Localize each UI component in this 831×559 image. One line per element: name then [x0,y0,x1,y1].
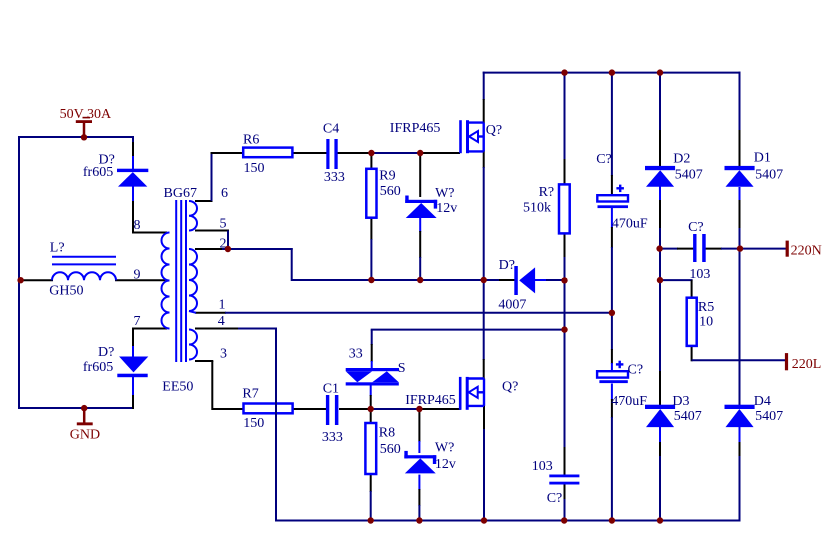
inductor L? GH50 [52,257,116,281]
label C? cap470b [628,363,644,378]
junction dot GND tap [81,405,87,411]
wire cap470b top lead [611,313,613,372]
wire diac top vertical [371,330,373,369]
label 5407 D3 [674,409,702,424]
svg-text:6: 6 [221,186,228,201]
pin number 4 [218,314,225,329]
label 470uF bottom [611,394,647,409]
wire bottom-left GND rail [18,407,134,409]
wire midpoint vertical [483,280,485,379]
junction dot bottom rail cap470b [609,517,615,523]
wire R9 bottom lead [370,217,372,282]
pin number 2 [220,237,227,252]
label R? 510k [539,185,555,200]
label D2 [673,152,690,167]
svg-text:2: 2 [220,237,227,252]
wire zener2 bottom lead [418,475,420,522]
wire zener1 top lead [419,153,421,197]
wire pin4 horizontal [238,328,277,330]
wire inductor right to pin9 [115,279,167,281]
svg-text:C?: C? [547,491,563,506]
label Q? bottom [502,380,518,395]
label 510k [523,201,551,216]
svg-text:5407: 5407 [755,168,783,183]
pin number 6 [221,186,228,201]
svg-text:C?: C? [628,363,644,378]
junction dot left rail / inductor [17,277,23,283]
junction dot bottom rail zener2 [416,517,422,523]
svg-text:R7: R7 [242,387,258,402]
svg-text:103: 103 [689,267,710,282]
svg-text:fr605: fr605 [83,165,113,180]
wire Q1 source vertical [483,150,485,281]
label 150 R6 [244,161,265,176]
wire Q2 source vertical [483,405,485,522]
label 5407 D2 [675,168,703,183]
pin number 7 [134,314,141,329]
svg-text:9: 9 [134,267,141,282]
label 470uF top [612,217,648,232]
wire bottom gate line R7-C1 [292,408,327,410]
wire pin3 vertical [211,361,213,410]
svg-text:510k: 510k [523,201,551,216]
svg-text:W?: W? [435,441,454,456]
terminal 220L [785,353,788,370]
svg-text:Q?: Q? [502,380,518,395]
junction dot top rail D2 [657,69,663,75]
svg-text:5407: 5407 [675,168,703,183]
svg-text:50V 30A: 50V 30A [60,107,112,122]
wire D1-D4 vertical [739,249,741,406]
label C1 [323,382,339,397]
wire top diode branch upper [132,137,134,233]
wire R8 top lead [370,409,372,424]
svg-text:8: 8 [134,218,141,233]
wire cap470a top lead [611,73,613,196]
svg-text:C?: C? [688,220,704,235]
svg-text:D4: D4 [754,394,771,409]
label 103 bottom [532,459,553,474]
pin number 3 [220,347,227,362]
svg-text:7: 7 [134,314,141,329]
junction dot 220N D1 line [737,245,743,251]
wire left rail [18,136,20,409]
junction dot bottom gate diac [368,406,374,412]
svg-text:4: 4 [218,314,225,329]
capacitor C? 103 bottom [549,475,579,485]
label W? bottom [435,441,454,456]
zener diode W? 12v top [405,196,437,219]
junction dot mid line midpoint [481,277,487,283]
wire pin4 vertical crossing R7 [275,402,277,415]
wire cap103b to bottom rail [564,484,566,522]
transformer primary winding pins 8-9-7 [162,233,170,329]
wire 4007 left lead [484,279,515,281]
resistor R7 [244,404,293,414]
svg-text:BG67: BG67 [164,186,197,201]
svg-text:5: 5 [220,216,227,231]
svg-text:R?: R? [539,185,555,200]
wire D2 bottom lead [659,187,661,250]
svg-text:R6: R6 [243,132,259,147]
wire zener1 bottom lead [419,218,421,282]
svg-text:R8: R8 [379,426,395,441]
svg-text:S: S [398,361,406,376]
junction dot top rail cap470a [609,69,615,75]
wire Q1 drain vertical [483,72,485,123]
svg-text:IFRP465: IFRP465 [405,393,456,408]
wire step down to mid line [291,248,293,281]
svg-text:4007: 4007 [498,297,526,312]
wire mid line right part [535,279,566,281]
wire mid line left part [292,279,515,281]
junction dot top rail R510k [561,69,567,75]
svg-text:1: 1 [219,297,226,312]
wire R510k top lead [564,73,566,185]
label D? top-left [99,153,115,168]
wire 220N left segment [660,248,694,250]
svg-text:C4: C4 [323,122,339,137]
svg-text:EE50: EE50 [162,379,193,394]
wire R5 bottom lead [691,345,693,361]
label GND [70,428,100,443]
junction dot diac line R510k [561,326,567,332]
label R9 [379,169,395,184]
wire inductor left [18,279,53,281]
wire R510k to cap103b [564,330,566,475]
svg-text:470uF: 470uF [612,217,648,232]
label C? cap103 bottom [547,491,563,506]
label 560 R9 [380,184,401,199]
wire bottom gate line R7 segment [212,408,244,410]
svg-text:5407: 5407 [755,409,783,424]
label 50V 30A [60,107,112,122]
svg-text:W?: W? [435,186,454,201]
label 12v top [436,201,457,216]
svg-text:12v: 12v [436,201,457,216]
svg-text:470uF: 470uF [611,394,647,409]
n-channel MOSFET Q1 IFRP465 [461,120,484,153]
svg-text:D1: D1 [754,151,771,166]
diode D3 [645,405,675,427]
wire diac bottom lead [370,385,372,410]
label 10 R5 [699,315,713,330]
junction dot mid line zener [417,277,423,283]
svg-text:220N: 220N [791,244,822,259]
junction dot top gate zener [417,150,423,156]
svg-text:220L: 220L [792,357,822,372]
transformer core BG67/EE50 [176,200,186,362]
junction dot R5 tap [657,277,663,283]
label 12v bottom [435,457,456,472]
transformer secondary winding pins 6-5 [189,201,197,231]
resistor R? 510k [559,184,570,233]
wire D3 bottom lead [659,427,661,522]
label 220N [791,244,822,259]
capacitor C? 470uF bottom [597,361,628,383]
junction dot pins 2-5 [225,246,231,252]
wire pin2 to step [222,248,293,250]
label 5407 D4 [755,409,783,424]
label fr605 top-left [83,165,113,180]
wire cap470a bottom lead [611,208,613,314]
diode D4 [725,405,755,427]
wire D2 top lead [659,72,661,167]
junction dot bottom rail R8 [368,517,374,523]
wire R510k mid lead [564,233,566,330]
label R7 [242,387,258,402]
svg-text:5407: 5407 [674,409,702,424]
resistor R8 [365,423,376,474]
capacitor C4 [326,139,337,169]
svg-text:C?: C? [596,152,612,167]
terminal 220N [786,241,789,257]
svg-text:C1: C1 [323,382,339,397]
diac 33 S [346,368,399,386]
label W? top [435,186,454,201]
label D? 4007 [499,258,515,273]
diode D? 4007 [514,266,535,295]
wire pin5 to pin2 vertical [227,231,229,250]
wire pin3 stub [195,360,213,362]
svg-text:560: 560 [380,442,401,457]
label R8 [379,426,395,441]
wire top gate line to Q1 gate [420,152,460,154]
label C? cap470a [596,152,612,167]
wire pin2 stub [195,248,224,250]
svg-text:103: 103 [532,459,553,474]
svg-text:L?: L? [50,240,65,255]
svg-text:D3: D3 [672,394,689,409]
label D3 [672,394,689,409]
wire top gate line R6 segment [211,152,245,154]
wire bottom gate line to Q2 gate [419,408,460,410]
wire D4 bottom lead [739,427,741,522]
junction dot top gate R9 [368,150,374,156]
junction dot bottom rail Q2 source [481,517,487,523]
wire zener2 top lead [418,409,420,453]
wire pin8 horizontal [132,232,167,234]
svg-text:D2: D2 [673,152,690,167]
pin number 9 [134,267,141,282]
label 333 C4 [324,170,345,185]
label 5407 D1 [755,168,783,183]
junction dot mid line R510k [561,277,567,283]
wire top gate line C4-junctions [337,152,421,154]
label D1 [754,151,771,166]
svg-text:GND: GND [70,428,100,443]
svg-text:560: 560 [380,184,401,199]
label EE50 [162,379,193,394]
resistor R9 [366,169,376,218]
power terminal 50V 30A [76,118,92,138]
capacitor C1 [326,395,339,425]
transformer secondary winding pins 2-1 [189,249,197,311]
svg-text:150: 150 [243,416,264,431]
wire diac line horizontal [371,329,566,331]
label Q? top [486,123,502,138]
svg-text:D?: D? [499,258,515,273]
junction dot mid line R9 [368,277,374,283]
pin number 5 [220,216,227,231]
wire pin5 stub [195,230,229,232]
svg-text:333: 333 [324,170,345,185]
wire bottom rail [275,520,741,522]
wire bottom diode branch [132,328,134,409]
svg-text:GH50: GH50 [49,284,83,299]
zener diode W? 12v bottom [404,451,436,474]
label IFRP465 top [390,121,441,136]
label C4 [323,122,339,137]
diode D? fr605 bottom [117,357,148,378]
svg-text:10: 10 [699,315,713,330]
svg-text:150: 150 [244,161,265,176]
label IFRP465 bottom [405,393,456,408]
label 333 C1 [322,430,343,445]
junction dot bottom rail R510k [561,517,567,523]
wire R9 top lead [370,153,372,170]
svg-text:IFRP465: IFRP465 [390,121,441,136]
wire pin1 to cap midpoint [195,312,613,314]
wire R5 top horizontal [660,279,693,281]
wire top rail [483,72,741,74]
label BG67 [164,186,197,201]
label 560 R8 [380,442,401,457]
transformer secondary winding pins 4-3 [189,330,197,360]
svg-text:33: 33 [349,347,363,362]
svg-text:3: 3 [220,347,227,362]
label S diac [398,361,406,376]
pin number 1 [219,297,226,312]
label D? bottom-left [98,345,114,360]
wire 220N right segment [706,248,787,250]
pin number 8 [134,218,141,233]
junction dot pin1 cap midpoint [609,310,615,316]
resistor R6 [243,148,292,158]
wire R5 top lead [691,280,693,298]
svg-text:Q?: Q? [486,123,502,138]
capacitor C? 470uF top [597,185,628,209]
label GH50 [49,284,83,299]
label 220L [792,357,822,372]
label 33 diac [349,347,363,362]
capacitor C? 103 top [693,234,706,262]
n-channel MOSFET Q2 IFRP465 [460,377,484,410]
wire pin4 vertical to bottom rail [275,328,277,522]
label fr605 bottom-left [83,360,113,375]
junction dot bottom gate zener [416,406,422,412]
label R6 [243,132,259,147]
diode D? fr605 top [117,169,148,187]
svg-text:333: 333 [322,430,343,445]
wire D3 top lead [659,280,661,408]
label 4007 [498,297,526,312]
wire D1 bottom lead [739,187,741,250]
wire cap470b bottom lead [611,384,613,522]
wire pin4 stub [195,328,240,330]
diode D2 [645,166,675,187]
svg-text:R9: R9 [379,169,395,184]
junction dot bottom rail D3 [657,517,663,523]
junction dot 220N D2 line [656,245,662,251]
wire bottom gate line C1-junctions [339,408,420,410]
resistor R5 [687,298,697,346]
wire D2-D3 vertical [659,249,661,281]
wire pin6 stub and vertical [195,152,213,201]
wire R8 bottom lead [370,473,372,522]
label D4 [754,394,771,409]
svg-text:fr605: fr605 [83,360,113,375]
label R5 [698,300,714,315]
svg-text:D?: D? [98,345,114,360]
wire top gate line R6-C4 [292,152,327,154]
wire 220L horizontal [692,359,786,361]
svg-text:R5: R5 [698,300,714,315]
label 150 R7 [243,416,264,431]
wire pin1 curl [189,311,196,313]
diode D1 [725,166,755,187]
junction dot 50V tap [81,134,87,140]
label C? cap103 top [688,220,704,235]
label L? [50,240,65,255]
wire D1 top lead [739,72,741,168]
svg-text:12v: 12v [435,457,456,472]
wire pin7 horizontal [132,328,167,330]
wire top-left rail 50V [18,136,134,138]
ground symbol GND [77,408,93,425]
label 103 top [689,267,710,282]
